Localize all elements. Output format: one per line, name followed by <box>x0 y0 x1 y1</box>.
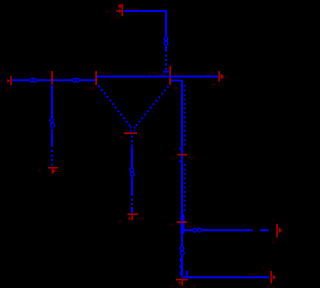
svg-text:A 00: A 00 <box>111 15 121 20</box>
svg-text:M: M <box>118 219 122 224</box>
pin marker (triangle top-left vertex) <box>86 64 112 92</box>
svg-text:00: 00 <box>171 156 177 161</box>
net label 00 (left wire) <box>30 78 37 82</box>
op-amp U1 (dashed triangle body, right edge) <box>136 86 169 126</box>
svg-text:00: 00 <box>280 228 285 233</box>
op-amp U1 (dashed triangle body, left edge) <box>99 86 131 127</box>
pin P2 (left input pin) <box>0 67 12 93</box>
pin P1 (top input pin) <box>105 4 139 20</box>
svg-text:I: I <box>121 209 122 214</box>
wire (horizontal net y=230) <box>184 224 269 230</box>
wire (dotted end segment x=132) <box>131 199 133 214</box>
svg-text:A: A <box>174 147 177 152</box>
svg-text:30: 30 <box>54 85 60 90</box>
svg-text:Am: Am <box>190 284 197 288</box>
wire (dotted below triangle output) <box>131 136 133 168</box>
svg-text:mm: mm <box>180 284 187 288</box>
svg-text:C: C <box>272 218 275 223</box>
wire from pin P1 to node at top <box>124 11 167 37</box>
wire (vertical from junction at x=52) <box>51 85 53 119</box>
wire (thick junction segment x=182) <box>181 214 185 234</box>
pin P4 (right output pin) <box>205 65 231 87</box>
wire (main horizontal net to right pin) <box>97 71 218 77</box>
svg-text:4: 4 <box>2 67 5 72</box>
net label 8 (on top vertical wire) <box>164 37 168 52</box>
svg-text:AAM: AAM <box>205 72 215 77</box>
svg-text:CMP: CMP <box>86 86 96 91</box>
pin marker (on x=182 bus, lower) <box>170 221 188 227</box>
net label 8 (on x=132 wire) <box>130 168 135 196</box>
pin marker (on x=182 bus, upper) <box>171 147 197 161</box>
svg-text:23: 23 <box>6 88 12 93</box>
svg-text:1A1: 1A1 <box>222 75 231 80</box>
svg-text:AmA: AmA <box>248 272 259 277</box>
svg-text:m: m <box>129 204 133 209</box>
net label 00 (on y=230 wire) <box>193 228 202 232</box>
pin marker (triangle bottom vertex) <box>120 132 145 140</box>
svg-text:1 A1: 1 A1 <box>148 71 158 76</box>
svg-text:I: I <box>216 65 217 70</box>
dashed component edge (dotted line beside x=182 wire) <box>180 85 185 212</box>
svg-text:07 70: 07 70 <box>187 224 199 229</box>
svg-text:A: A <box>262 267 265 272</box>
wire (from triangle right vertex to vertical bus x=182) <box>171 80 182 277</box>
wire (dash nubs beside lower x=182 wire) <box>180 258 182 275</box>
net label 8 (on x=52 wire) <box>50 118 55 147</box>
svg-text:m: m <box>0 79 4 84</box>
svg-text:A C: A C <box>188 155 196 160</box>
svg-text:C: C <box>171 62 174 67</box>
svg-text:m m: m m <box>267 284 276 288</box>
pin P7 (bottom pin of x=182 bus) <box>170 279 197 288</box>
op-amp U1 (output stubs at bottom vertex) <box>131 127 135 132</box>
svg-text:m: m <box>170 284 174 288</box>
svg-text:10: 10 <box>271 240 277 245</box>
svg-text:m: m <box>38 168 42 173</box>
wire (dotted) down to dashed component <box>163 55 169 73</box>
wire (dotted end segment x=52) <box>51 150 53 166</box>
svg-text:A0: A0 <box>56 168 62 173</box>
svg-text:A1: A1 <box>138 134 144 139</box>
pin P5 (bottom pin of x=132 net) <box>118 204 144 224</box>
wire (left horizontal net) <box>12 79 96 81</box>
svg-text:1A: 1A <box>55 76 60 81</box>
svg-text:40: 40 <box>120 135 126 140</box>
svg-text:VL1: VL1 <box>105 9 114 14</box>
net label 8 (on lower x=182 wire) <box>180 246 184 254</box>
svg-text:72: 72 <box>45 70 51 75</box>
pin P3 (bottom pin of x=52 net) <box>38 167 62 174</box>
svg-text:00 A0: 00 A0 <box>211 82 223 87</box>
pin marker (junction pin on left wire) <box>40 70 60 90</box>
pin P8 (right pin of y=277 net) <box>262 267 277 288</box>
svg-text:A0: A0 <box>40 76 46 81</box>
pin P6 (right pin of y=230 net) <box>271 218 285 245</box>
pin marker (triangle top-right vertex) <box>156 62 183 91</box>
svg-text:AM: AM <box>137 216 144 221</box>
wire (bottom horizontal net y=277) <box>183 271 269 277</box>
svg-text:0A: 0A <box>170 222 177 227</box>
net label 00 (left wire, second) <box>72 78 79 82</box>
svg-text:4n 0V: 4n 0V <box>99 71 112 76</box>
